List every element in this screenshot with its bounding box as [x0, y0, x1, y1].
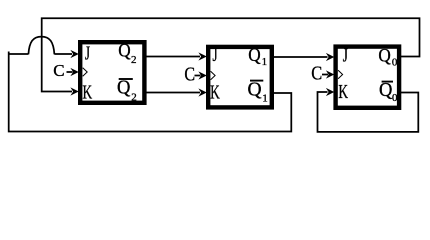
wire from hop to J of U2	[54, 53, 72, 55]
flip-flop U0 (Q0 stage) box	[336, 47, 400, 108]
svg-text:Q: Q	[118, 40, 131, 61]
arrowhead into J of U2	[70, 50, 78, 58]
svg-text:0: 0	[392, 57, 398, 69]
svg-text:J: J	[85, 42, 90, 64]
clock edge mark U0	[338, 70, 343, 78]
arrowhead into K of U2	[70, 87, 78, 95]
svg-text:C: C	[53, 61, 64, 80]
svg-text:1: 1	[262, 93, 268, 105]
arrowhead into J of U0	[326, 53, 334, 61]
svg-text:2: 2	[131, 54, 137, 66]
svg-text:J: J	[343, 44, 348, 66]
svg-text:Q: Q	[248, 79, 262, 100]
svg-text:J: J	[213, 43, 218, 65]
arrowhead into K of U1	[198, 88, 206, 96]
svg-text:Q: Q	[379, 79, 393, 101]
wire Q1bar feedback: from Q1bar output down, along bottom, up the left, into J of U2	[9, 52, 292, 132]
arrowhead into K of U0	[326, 88, 334, 96]
clock C arrow into U2	[67, 71, 73, 73]
flip-flop U1 (Q1 stage) box	[208, 47, 272, 108]
svg-text:K: K	[210, 81, 220, 103]
svg-text:Q: Q	[378, 45, 391, 66]
svg-text:Q: Q	[248, 44, 261, 65]
clock edge mark U2	[83, 68, 88, 76]
wire Q0bar feedback: from Q0bar output down, under box, up into K of U0	[318, 92, 419, 132]
wire Q2 to J of U1	[147, 56, 201, 58]
clock C arrow into U1	[195, 75, 201, 77]
wire Q1 to J of U0	[274, 56, 328, 58]
wire Q0 feedback: from Q0 output up over the top to K input of U2	[42, 18, 420, 91]
svg-text:Q: Q	[117, 77, 131, 99]
flip-flop U2 (Q2 stage) box	[80, 42, 144, 103]
svg-text:K: K	[83, 81, 93, 103]
wire Q2bar to K of U1	[147, 92, 201, 94]
svg-text:C: C	[184, 62, 195, 84]
svg-text:0: 0	[392, 92, 398, 104]
clock C arrow into U0	[322, 74, 328, 76]
clock edge mark U1	[211, 71, 216, 79]
arrowhead into J of U1	[198, 52, 206, 60]
svg-text:1: 1	[262, 56, 268, 68]
svg-text:K: K	[338, 80, 348, 102]
svg-text:C: C	[311, 62, 322, 85]
svg-text:2: 2	[131, 92, 137, 104]
wire hop over vertical feedback line	[28, 37, 54, 55]
